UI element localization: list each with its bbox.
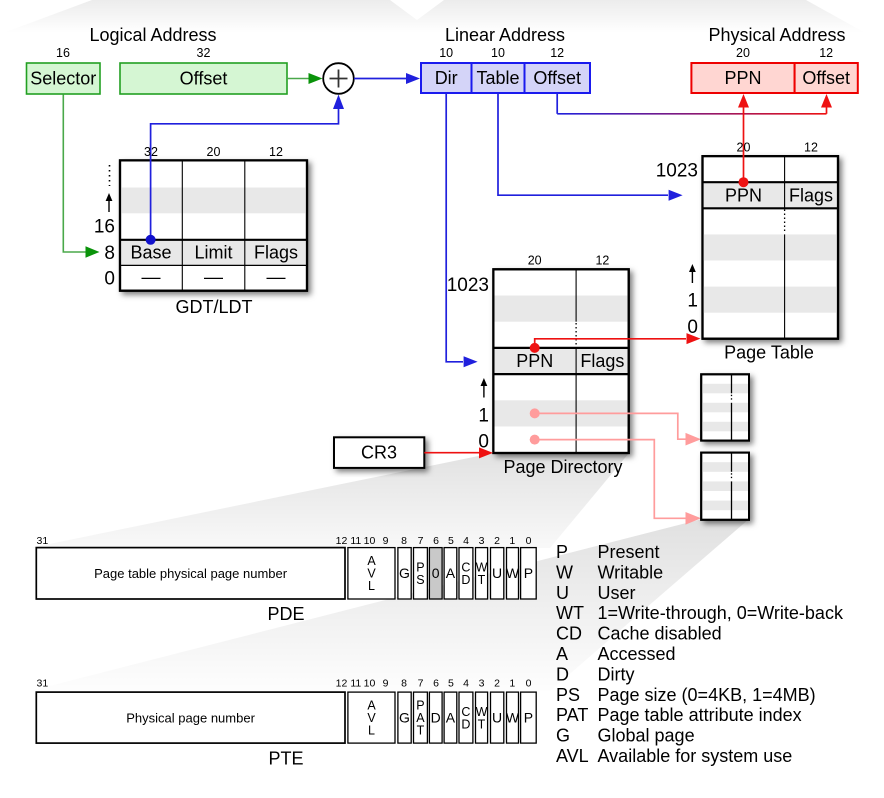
node dot base	[146, 235, 156, 245]
dotted ellipsis GDT	[109, 165, 111, 186]
svg-text:G: G	[399, 565, 410, 581]
svg-text:12: 12	[336, 535, 348, 547]
wire offset to adder	[287, 78, 310, 80]
svg-text:31: 31	[37, 535, 49, 547]
box PPN (physical)	[691, 63, 794, 93]
small table 2 body	[701, 453, 749, 520]
svg-text:1023: 1023	[656, 161, 698, 182]
box Offset (physical)	[795, 63, 858, 93]
PTE cell D	[429, 692, 442, 743]
PDE cell PS	[414, 548, 428, 599]
table Page Directory shadow	[493, 269, 628, 453]
svg-text:16: 16	[94, 217, 115, 238]
svg-text:GDT/LDT: GDT/LDT	[175, 297, 252, 317]
svg-text:Physical page number: Physical page number	[126, 710, 255, 725]
svg-text:Dir: Dir	[435, 68, 458, 88]
PTE cell A	[444, 692, 457, 743]
svg-text:D: D	[431, 709, 441, 725]
svg-text:CD: CD	[556, 624, 582, 644]
box Dir	[421, 63, 472, 93]
svg-text:Base: Base	[130, 243, 171, 263]
PTE cell P	[521, 692, 537, 743]
svg-text:0: 0	[526, 678, 532, 690]
svg-text:PPN: PPN	[516, 351, 553, 371]
svg-text:32: 32	[197, 46, 211, 60]
svg-text:U: U	[492, 709, 502, 725]
PTE cell WT	[476, 692, 488, 743]
svg-text:W: W	[506, 565, 520, 581]
svg-text:9: 9	[383, 535, 389, 547]
svg-text:Global page: Global page	[598, 726, 695, 746]
table GDT shadow	[120, 160, 307, 290]
svg-text:S: S	[416, 573, 424, 587]
PTE bit labels	[37, 678, 532, 690]
svg-text:8: 8	[104, 243, 115, 264]
svg-text:P: P	[524, 709, 533, 725]
svg-text:Dirty: Dirty	[598, 664, 635, 684]
svg-text:PPN: PPN	[725, 185, 762, 205]
wire selector to GDT	[63, 95, 86, 253]
svg-text:T: T	[478, 717, 486, 731]
svg-text:Flags: Flags	[789, 185, 833, 205]
svg-text:8: 8	[401, 678, 407, 690]
svg-text:Available for system use: Available for system use	[598, 746, 793, 766]
up arrow PD	[483, 385, 485, 398]
beam top	[0, 0, 878, 40]
svg-text:12: 12	[336, 678, 348, 690]
svg-text:1: 1	[509, 678, 515, 690]
svg-text:1023: 1023	[447, 275, 489, 296]
svg-text:Selector: Selector	[30, 69, 96, 89]
svg-text:0: 0	[526, 535, 532, 547]
box Offset (linear)	[525, 63, 591, 93]
svg-text:Flags: Flags	[254, 243, 298, 263]
svg-text:U: U	[492, 565, 502, 581]
table Page Directory body	[493, 269, 628, 453]
svg-text:7: 7	[418, 535, 424, 547]
svg-text:D: D	[461, 717, 470, 731]
svg-text:Logical Address: Logical Address	[89, 25, 216, 45]
PDE cell G	[398, 548, 411, 599]
svg-text:11: 11	[350, 535, 361, 547]
svg-text:T: T	[417, 723, 425, 737]
PDE cell AVL	[348, 548, 395, 599]
svg-text:Cache disabled: Cache disabled	[598, 624, 722, 644]
svg-text:20: 20	[528, 254, 542, 268]
wire PD entry1 to small table 1	[535, 413, 686, 439]
svg-text:1: 1	[687, 291, 698, 312]
svg-text:10: 10	[439, 46, 453, 60]
svg-text:A: A	[446, 709, 456, 725]
svg-text:1=Write-through, 0=Write-back: 1=Write-through, 0=Write-back	[598, 603, 844, 623]
svg-text:A: A	[556, 644, 568, 664]
svg-text:G: G	[399, 709, 410, 725]
svg-text:Page Directory: Page Directory	[503, 457, 622, 477]
svg-text:L: L	[368, 723, 375, 737]
wire GDT base to adder	[151, 107, 339, 240]
wire Table to page table	[498, 93, 668, 195]
svg-text:2: 2	[494, 678, 500, 690]
up arrow PT	[691, 271, 693, 283]
svg-text:12: 12	[550, 46, 564, 60]
svg-text:5: 5	[448, 535, 454, 547]
node dot PD PPN	[530, 343, 540, 353]
svg-text:P: P	[524, 565, 533, 581]
PDE cell W	[506, 548, 520, 599]
svg-text:1: 1	[478, 406, 489, 427]
svg-text:U: U	[556, 583, 569, 603]
wire CR3 to page directory	[424, 452, 479, 454]
svg-text:Page Table: Page Table	[724, 343, 814, 363]
svg-text:0: 0	[432, 565, 440, 581]
svg-text:P: P	[556, 542, 568, 562]
PTE cell W	[506, 692, 520, 743]
wire adder to Dir	[354, 78, 407, 80]
svg-text:Present: Present	[598, 542, 660, 562]
PDE cell P	[521, 548, 537, 599]
svg-text:Physical Address: Physical Address	[708, 25, 845, 45]
svg-text:CR3: CR3	[361, 443, 397, 463]
box CR3 shadow	[334, 437, 424, 468]
svg-text:20: 20	[737, 141, 751, 155]
beam PDE zoom	[30, 453, 629, 548]
PTE cell AVL	[348, 692, 395, 743]
svg-text:WT: WT	[556, 603, 584, 623]
svg-text:8: 8	[401, 535, 407, 547]
svg-text:10: 10	[364, 535, 376, 547]
node dot PD entry1	[530, 408, 540, 418]
small table 2 shadow	[701, 453, 749, 520]
wire linear offset to physical offset	[556, 93, 558, 114]
svg-text:Writable: Writable	[598, 562, 664, 582]
table Page Table body	[703, 156, 839, 339]
svg-text:PAT: PAT	[556, 705, 588, 725]
svg-text:Flags: Flags	[580, 351, 624, 371]
PTE cell PAT	[414, 692, 428, 743]
svg-text:6: 6	[433, 535, 439, 547]
wire PD entry0 to small table 2	[535, 440, 686, 519]
PTE cell page number	[36, 692, 345, 743]
PDE bit labels	[37, 535, 532, 547]
svg-text:7: 7	[418, 678, 424, 690]
adder circle	[323, 63, 354, 94]
svg-text:—: —	[204, 268, 223, 289]
svg-text:5: 5	[448, 678, 454, 690]
box Offset (logical)	[120, 63, 287, 94]
PTE cell U	[491, 692, 504, 743]
PDE cell U	[491, 548, 504, 599]
svg-text:0: 0	[687, 317, 698, 338]
node dot PD entry0	[530, 435, 540, 445]
svg-text:2: 2	[494, 535, 500, 547]
svg-text:T: T	[478, 573, 486, 587]
svg-text:A: A	[446, 565, 456, 581]
wire Dir to page directory	[446, 93, 463, 362]
svg-text:PS: PS	[556, 685, 580, 705]
svg-text:0: 0	[104, 269, 115, 290]
wire PD PPN to page table	[535, 339, 686, 348]
svg-text:Offset: Offset	[180, 69, 228, 89]
svg-text:Page size (0=4KB, 1=4MB): Page size (0=4KB, 1=4MB)	[598, 685, 816, 705]
table GDT body	[120, 160, 307, 290]
svg-text:AVL: AVL	[556, 746, 589, 766]
svg-text:11: 11	[350, 678, 361, 690]
svg-text:32: 32	[144, 145, 158, 159]
svg-text:Limit: Limit	[194, 243, 232, 263]
svg-text:10: 10	[491, 46, 505, 60]
svg-text:—: —	[267, 268, 286, 289]
box Table	[472, 63, 525, 93]
svg-text:D: D	[556, 664, 569, 684]
beam PTE zoom	[30, 519, 749, 691]
up arrow GDT	[108, 200, 110, 212]
svg-text:6: 6	[433, 678, 439, 690]
svg-text:4: 4	[463, 535, 469, 547]
PTE cell G	[398, 692, 411, 743]
svg-text:12: 12	[269, 145, 283, 159]
svg-text:Linear Address: Linear Address	[445, 25, 565, 45]
svg-text:20: 20	[207, 145, 221, 159]
svg-text:PPN: PPN	[724, 68, 761, 88]
PTE cell CD	[459, 692, 473, 743]
svg-text:31: 31	[37, 678, 49, 690]
svg-text:12: 12	[804, 141, 818, 155]
svg-text:Page table physical page numbe: Page table physical page number	[94, 566, 288, 581]
svg-text:20: 20	[736, 46, 750, 60]
svg-text:User: User	[598, 583, 636, 603]
svg-text:—: —	[142, 268, 161, 289]
svg-text:3: 3	[479, 535, 485, 547]
svg-text:10: 10	[364, 678, 376, 690]
svg-text:12: 12	[819, 46, 833, 60]
PDE cell CD	[459, 548, 473, 599]
svg-text:PDE: PDE	[267, 604, 304, 624]
table Page Table shadow	[703, 156, 839, 339]
svg-text:Accessed: Accessed	[598, 644, 676, 664]
PDE cell page number	[36, 548, 345, 599]
node dot PT PPN	[739, 177, 749, 187]
svg-text:12: 12	[595, 254, 609, 268]
box Selector	[27, 63, 101, 94]
wire page table PPN to physical PPN	[743, 107, 745, 182]
svg-text:Table: Table	[476, 68, 519, 88]
svg-text:PTE: PTE	[268, 749, 303, 769]
svg-text:W: W	[506, 709, 520, 725]
PDE cell A	[444, 548, 457, 599]
legend	[556, 542, 844, 766]
svg-text:Offset: Offset	[802, 68, 850, 88]
svg-text:W: W	[556, 562, 573, 582]
svg-text:16: 16	[56, 46, 70, 60]
PDE cell zero	[429, 548, 442, 599]
svg-text:9: 9	[383, 678, 389, 690]
svg-text:G: G	[556, 726, 570, 746]
svg-text:1: 1	[509, 535, 515, 547]
svg-text:Offset: Offset	[533, 68, 581, 88]
svg-text:L: L	[368, 579, 375, 593]
PDE cell WT	[476, 548, 488, 599]
small table 1 body	[701, 374, 749, 440]
svg-text:3: 3	[479, 678, 485, 690]
svg-text:4: 4	[463, 678, 469, 690]
small table 1 shadow	[701, 374, 749, 440]
svg-text:Page table attribute index: Page table attribute index	[598, 705, 802, 725]
svg-text:D: D	[461, 573, 470, 587]
